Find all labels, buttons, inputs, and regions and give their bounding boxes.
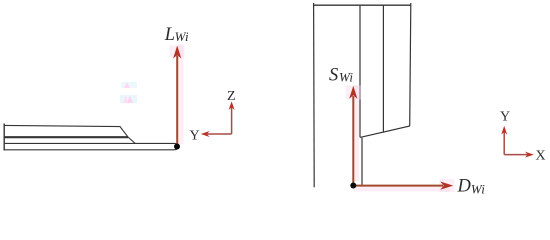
svg-text:Y: Y <box>500 109 510 124</box>
svg-text:L: L <box>164 25 175 45</box>
axis (left view) Z arrow <box>229 101 235 134</box>
axis (left view) Y arrow <box>201 131 232 137</box>
node: wing reference point (left view) <box>174 144 180 150</box>
svg-text:X: X <box>536 148 546 163</box>
node: wing reference point (plan view) <box>350 183 356 189</box>
label Z <box>227 89 236 104</box>
svg-text:Wi: Wi <box>175 29 189 44</box>
pink halo of S arrow <box>346 85 361 181</box>
axis (plan view) Y arrow <box>501 126 507 155</box>
pink halo of D arrow <box>353 179 455 192</box>
wing side-view top surface line <box>4 125 135 143</box>
wing side-view bottom line with rounded right tip <box>4 143 179 149</box>
wing plan-view inner vertical line <box>359 5 361 138</box>
wing plan-view top edge line <box>313 4 411 6</box>
pink halo of lift arrow <box>170 44 185 144</box>
svg-text:Wi: Wi <box>339 70 353 85</box>
wing plan-view right edge <box>410 3 411 126</box>
wing plan-view lower body line <box>361 138 363 185</box>
drag vector D_Wi arrow <box>353 182 453 190</box>
wing plan-view second inner vertical line <box>382 5 384 132</box>
side force vector S_Wi arrow <box>349 86 357 186</box>
label Y (left view) <box>190 129 200 144</box>
wing side-view thick mid chord line <box>4 136 128 138</box>
watermark smudge upper <box>121 82 137 88</box>
label S_Wi <box>329 66 353 86</box>
lift vector L_Wi arrow <box>173 46 181 147</box>
label X <box>536 148 546 163</box>
svg-text:S: S <box>329 66 338 86</box>
label L_Wi <box>164 25 189 45</box>
wing side-view lower line <box>4 142 175 144</box>
axis (plan view) X arrow <box>504 152 534 158</box>
svg-text:D: D <box>457 177 472 197</box>
wing plan-view left edge <box>313 3 316 187</box>
label D_Wi <box>457 177 486 197</box>
wing side-view left spar bar <box>3 124 5 151</box>
svg-text:Z: Z <box>227 89 236 104</box>
wing plan-view slanted bottom edge <box>360 126 410 137</box>
label Y (plan view) <box>500 109 510 124</box>
watermark smudge lower <box>120 95 137 103</box>
svg-text:Y: Y <box>190 129 200 144</box>
svg-text:Wi: Wi <box>471 181 485 196</box>
